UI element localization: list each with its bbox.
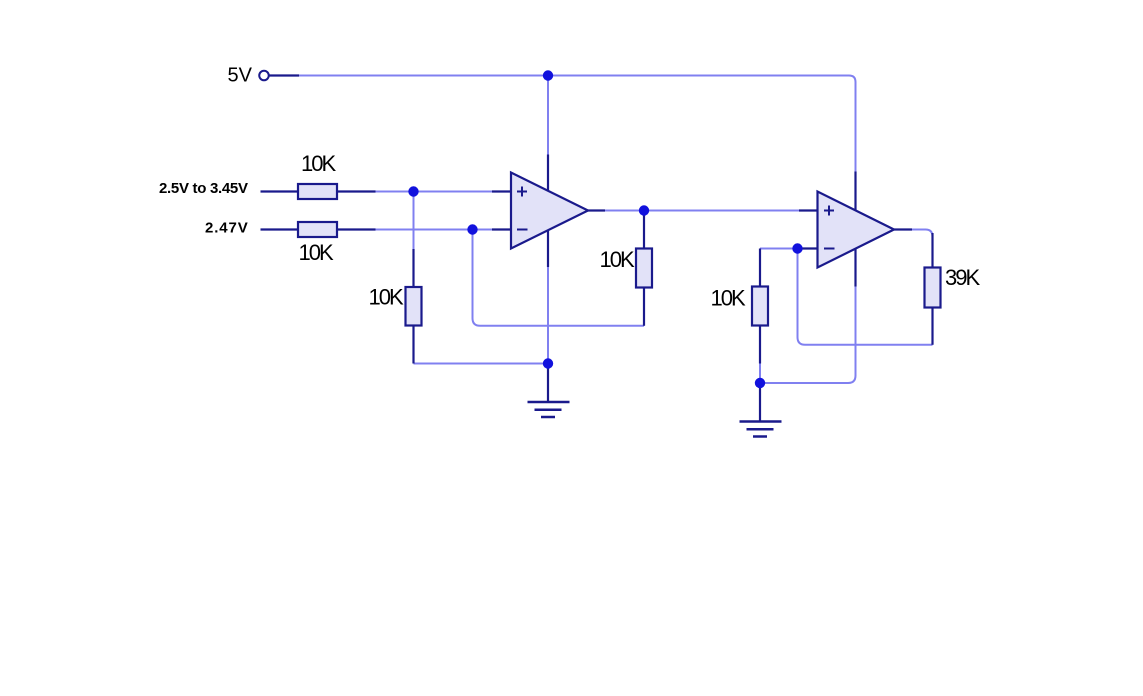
svg-text:10K: 10K	[711, 286, 746, 311]
svg-text:5V: 5V	[228, 65, 253, 87]
svg-text:10K: 10K	[301, 151, 336, 176]
svg-text:2.5V to 3.45V: 2.5V to 3.45V	[159, 180, 248, 197]
svg-text:2.47V: 2.47V	[205, 220, 249, 237]
svg-text:39K: 39K	[945, 265, 980, 290]
svg-text:10K: 10K	[369, 284, 404, 309]
svg-text:10K: 10K	[299, 240, 334, 265]
svg-text:10K: 10K	[600, 247, 635, 272]
